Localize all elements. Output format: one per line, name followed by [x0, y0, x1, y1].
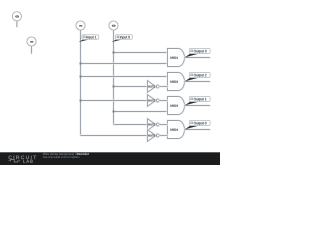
logic input LI4 — [27, 37, 36, 54]
junction at (80.5,100.5) — [80, 100, 82, 102]
node flag Output 3 — [185, 49, 210, 58]
node flag Output 1 — [185, 97, 210, 106]
watermark bar — [0, 152, 220, 165]
node flag Input 1 — [78, 35, 98, 42]
wire B8: Input1 to NOT4 input — [81, 134, 148, 136]
node flag Input 0 — [111, 35, 132, 42]
node flag Output 2 — [185, 73, 210, 82]
AND gate AND1 — [168, 49, 185, 67]
wire: AND2 output — [184, 80, 210, 82]
wire: Input 0 vertical bus — [112, 30, 114, 125]
junction at (80.5,76.5) — [80, 76, 82, 78]
wire B6: Input0 to AND3 lower input — [114, 110, 168, 112]
junction at (113.5,111.5) — [113, 111, 115, 113]
node flag Output 0 — [185, 121, 210, 130]
credit line 2 — [43, 156, 79, 159]
wire B1: Input0 to AND1 upper input — [114, 51, 168, 53]
logic input LI2 — [109, 21, 118, 30]
NOT gate NOT4 — [148, 130, 168, 141]
wire: AND4 output — [184, 128, 210, 130]
AND gate AND2 — [168, 73, 185, 91]
CircuitLab logo — [9, 156, 37, 160]
junction at (80.5,63.5) — [80, 63, 82, 65]
wire B5: Input1 to NOT2 input — [81, 99, 148, 101]
wire: AND1 output — [184, 56, 210, 58]
logic input LI1 — [76, 21, 85, 30]
AND gate AND3 — [168, 97, 185, 115]
credit line 1 — [43, 153, 76, 156]
wire B4: Input0 to NOT1 input — [114, 85, 148, 87]
AND gate AND4 — [168, 121, 185, 139]
wire B7: Input0 to NOT3 input — [114, 123, 148, 125]
logic input LI3 — [12, 12, 21, 27]
wire: Input 1 vertical bus — [79, 30, 81, 136]
NOT gate NOT2 — [148, 95, 168, 106]
wire: AND3 output — [184, 104, 210, 106]
junction at (113.5,52.5) — [113, 52, 115, 54]
wire B2: Input1 to AND1 lower input — [81, 62, 168, 64]
NOT gate NOT3 — [148, 119, 168, 130]
NOT gate NOT1 — [148, 81, 168, 92]
junction at (113.5,86.5) — [113, 86, 115, 88]
wire B3: Input1 to AND2 upper input — [81, 75, 168, 77]
